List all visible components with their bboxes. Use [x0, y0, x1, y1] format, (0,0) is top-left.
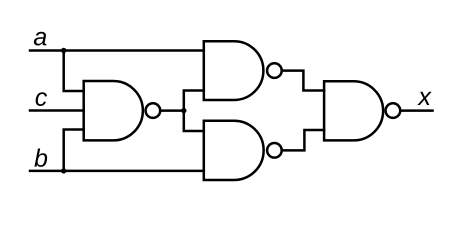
wire: N1 up to U2 bottom input	[184, 91, 204, 111]
nand gate U4 (output)	[324, 81, 400, 140]
wire: U3 output to U4 bottom input	[282, 130, 324, 150]
junction: node N1	[181, 108, 186, 113]
wire: b branch to U1 bottom input	[64, 130, 84, 171]
wire: input b	[30, 170, 204, 173]
input label b	[34, 149, 47, 167]
wire: U1 output to node N1	[160, 109, 184, 112]
input label a	[34, 32, 46, 46]
nand gate U3 (bottom middle)	[204, 121, 282, 180]
junction: node a	[61, 48, 66, 53]
wire: input c	[30, 109, 84, 112]
junction: node b	[61, 168, 66, 173]
wire: U2 output to U4 top input	[282, 71, 324, 91]
wire: output x	[400, 109, 432, 112]
wire: N1 down to U3 top input	[184, 111, 204, 131]
output label x	[417, 92, 431, 105]
nand gate U1 (inputs a,c,b)	[84, 81, 161, 140]
wire: input a	[30, 49, 204, 52]
wire: a branch to U1 top input	[64, 51, 84, 92]
nand gate U2 (top middle)	[204, 41, 282, 100]
input label c	[36, 92, 47, 106]
